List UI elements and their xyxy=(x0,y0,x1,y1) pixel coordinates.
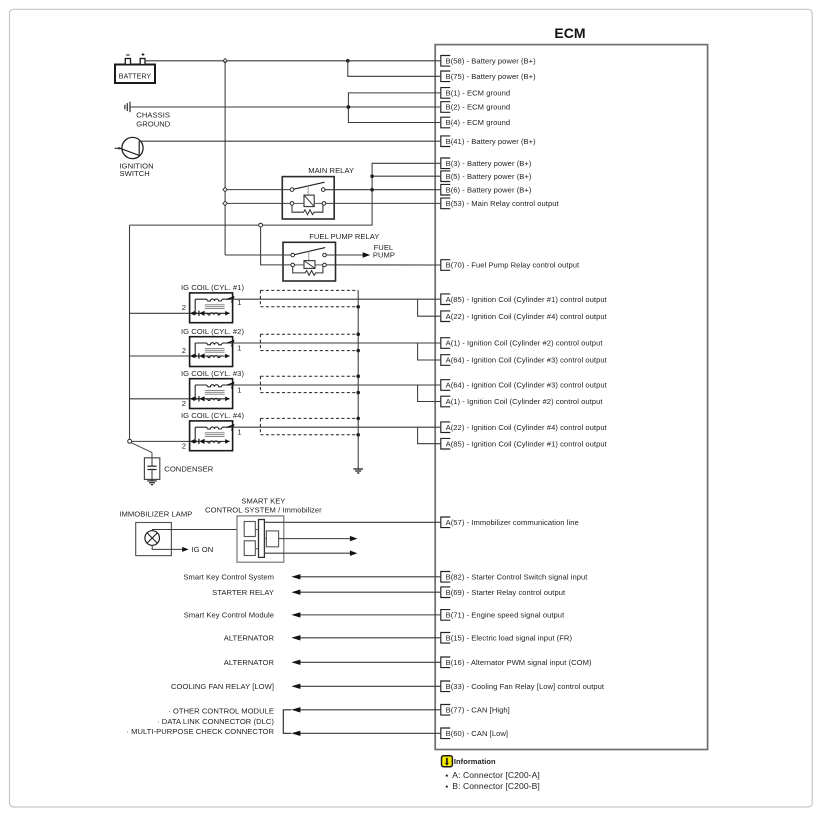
svg-text:ECM: ECM xyxy=(554,25,585,41)
label FUEL PUMP xyxy=(373,243,395,259)
svg-text:A(1) - Ignition Coil (Cylinder: A(1) - Ignition Coil (Cylinder #2) contr… xyxy=(446,397,604,406)
wire coil #1 control branch xyxy=(418,299,441,316)
label COOLING FAN RELAY [LOW] xyxy=(171,682,274,691)
svg-text:B(6) - Battery power (B+): B(6) - Battery power (B+) xyxy=(446,185,532,194)
svg-text:A(57) - Immobilizer communicat: A(57) - Immobilizer communication line xyxy=(446,518,579,527)
pin A(57) xyxy=(441,517,579,528)
wire main relay coil to pin B(53) xyxy=(326,202,441,204)
svg-text:· OTHER CONTROL MODULE: · OTHER CONTROL MODULE xyxy=(168,707,274,716)
label Smart Key Control System xyxy=(183,572,274,581)
ignition switch SW1 xyxy=(115,137,154,177)
svg-text:STARTER RELAY: STARTER RELAY xyxy=(212,588,274,597)
pin B(58) xyxy=(441,56,536,67)
pin A(22) xyxy=(441,311,608,322)
fuel pump relay K2 xyxy=(283,232,379,281)
shield ground xyxy=(353,469,363,473)
svg-text:B(33) - Cooling Fan Relay [Low: B(33) - Cooling Fan Relay [Low] control … xyxy=(446,682,605,691)
wire battery bus to fuel pump relay switch xyxy=(225,254,291,256)
smart key control unit U2 xyxy=(205,496,322,562)
svg-text:MAIN RELAY: MAIN RELAY xyxy=(308,166,354,175)
wire coil #1 pin 2 feed xyxy=(130,312,190,314)
junction condenser node xyxy=(128,439,132,443)
pin B(5) xyxy=(441,171,532,182)
svg-text:A(85) - Ignition Coil (Cylinde: A(85) - Ignition Coil (Cylinder #1) cont… xyxy=(446,439,608,448)
shield drain bus xyxy=(356,290,360,468)
svg-text:CONDENSER: CONDENSER xyxy=(164,465,213,474)
pin B(71) xyxy=(441,610,565,621)
svg-text:CONTROL SYSTEM / Immobilizer: CONTROL SYSTEM / Immobilizer xyxy=(205,505,322,514)
svg-text:IMMOBILIZER LAMP: IMMOBILIZER LAMP xyxy=(119,510,192,519)
shield for coil #3 wire xyxy=(260,376,358,392)
svg-text:ALTERNATOR: ALTERNATOR xyxy=(224,633,275,642)
svg-text:PUMP: PUMP xyxy=(373,251,395,260)
label STARTER RELAY xyxy=(212,588,274,597)
wire smart key to pin A(57) xyxy=(264,521,440,523)
svg-text:B(58) - Battery power (B+): B(58) - Battery power (B+) xyxy=(446,56,537,65)
svg-text:A(1) - Ignition Coil (Cylinder: A(1) - Ignition Coil (Cylinder #2) contr… xyxy=(446,339,604,348)
wire battery B+ to pin B(58) xyxy=(145,60,440,62)
svg-text:B: Connector [C200-B]: B: Connector [C200-B] xyxy=(452,781,540,791)
pin B(3) xyxy=(441,158,532,169)
svg-text:COOLING FAN RELAY [LOW]: COOLING FAN RELAY [LOW] xyxy=(171,682,274,691)
pin B(75) xyxy=(441,71,536,82)
ignition coil T2 (IG COIL CYL #2) xyxy=(181,327,244,367)
svg-text:Smart Key Control Module: Smart Key Control Module xyxy=(184,611,274,620)
pin A(85) xyxy=(441,294,608,305)
junction B(75) tap xyxy=(346,59,350,63)
svg-text:ALTERNATOR: ALTERNATOR xyxy=(224,658,275,667)
pin B(41) xyxy=(441,136,536,147)
wire to pin B(75) xyxy=(348,61,441,77)
wire chassis ground to pin B(2) xyxy=(130,106,440,108)
wire bus to coil #4 pin 2 xyxy=(132,440,190,442)
svg-text:B(77) - CAN [High]: B(77) - CAN [High] xyxy=(446,705,510,714)
wire pin B(60) CAN Low xyxy=(291,731,440,736)
svg-text:B(1) - ECM ground: B(1) - ECM ground xyxy=(446,89,511,98)
pin A(1) xyxy=(441,338,604,349)
wire pin row to STARTER RELAY xyxy=(291,590,440,595)
wire coil #4 control branch xyxy=(418,427,441,444)
pin B(2) xyxy=(441,102,510,113)
battery BAT1 xyxy=(115,53,155,83)
wire coil #4 control to ECM xyxy=(233,426,441,428)
ignition coil T1 (IG COIL CYL #1) xyxy=(181,283,244,323)
svg-text:GROUND: GROUND xyxy=(136,119,171,128)
svg-text:B(2) - ECM ground: B(2) - ECM ground xyxy=(446,103,511,112)
label Smart Key Control Module xyxy=(184,611,274,620)
wire battery bus to main relay switch xyxy=(223,187,290,191)
wire coil #3 control branch xyxy=(418,385,441,402)
wire pin row to Smart Key Control System xyxy=(291,574,440,579)
wire fuel pump relay coil to pin B(70) xyxy=(326,264,440,266)
ignition coil T4 (IG COIL CYL #4) xyxy=(181,411,244,451)
svg-text:1: 1 xyxy=(237,385,241,394)
main relay K1 xyxy=(282,166,354,219)
wire pin row to ALTERNATOR xyxy=(291,660,440,665)
svg-text:CHASSIS: CHASSIS xyxy=(136,111,170,120)
labels CAN modules xyxy=(126,707,274,736)
svg-text:Smart Key Control System: Smart Key Control System xyxy=(183,572,274,581)
pin B(6) xyxy=(441,184,532,195)
pin B(33) xyxy=(441,681,605,692)
svg-text:· MULTI-PURPOSE CHECK CONNECTO: · MULTI-PURPOSE CHECK CONNECTOR xyxy=(126,727,274,736)
label ALTERNATOR xyxy=(224,658,275,667)
wire fuel pump relay to FUEL PUMP xyxy=(326,252,370,257)
svg-text:A(22) - Ignition Coil (Cylinde: A(22) - Ignition Coil (Cylinder #4) cont… xyxy=(446,423,608,432)
wire coil #1 control to ECM xyxy=(233,298,441,300)
immobilizer lamp L1 xyxy=(119,510,192,556)
svg-text:B(53) - Main Relay control out: B(53) - Main Relay control output xyxy=(446,199,560,208)
svg-text:B(60) - CAN [Low]: B(60) - CAN [Low] xyxy=(446,729,508,738)
svg-text:B(5) - Battery power (B+): B(5) - Battery power (B+) xyxy=(446,172,532,181)
ignition coil T3 (IG COIL CYL #3) xyxy=(181,369,244,409)
svg-text:A(85) - Ignition Coil (Cylinde: A(85) - Ignition Coil (Cylinder #1) cont… xyxy=(446,295,608,304)
wire ignition switch to pin B(41) xyxy=(140,140,440,142)
svg-text:IG COIL (CYL. #4): IG COIL (CYL. #4) xyxy=(181,411,244,420)
wire coil #2 control branch xyxy=(418,343,441,360)
wire coil #2 pin 2 feed xyxy=(130,355,190,357)
wire pin row to ALTERNATOR xyxy=(291,635,440,640)
pin B(82) xyxy=(441,572,588,583)
svg-text:1: 1 xyxy=(237,428,241,437)
svg-text:B(82) - Starter Control Switch: B(82) - Starter Control Switch signal in… xyxy=(446,572,589,581)
pin A(1) xyxy=(441,396,604,407)
svg-text:B(69) - Starter Relay control: B(69) - Starter Relay control output xyxy=(446,588,566,597)
pin B(70) xyxy=(441,260,580,271)
svg-text:B(3) - Battery power (B+): B(3) - Battery power (B+) xyxy=(446,159,532,168)
svg-text:B(4) - ECM ground: B(4) - ECM ground xyxy=(446,118,511,127)
svg-text:BATTERY: BATTERY xyxy=(119,72,152,80)
wire pin row to Smart Key Control Module xyxy=(291,612,440,617)
svg-text:IG ON: IG ON xyxy=(192,545,214,554)
condenser C1 xyxy=(131,443,213,485)
svg-text:B(71) - Engine speed signal ou: B(71) - Engine speed signal output xyxy=(446,611,565,620)
wire lamp to smart key unit xyxy=(152,530,237,531)
svg-text:2: 2 xyxy=(182,442,186,451)
svg-text:IG COIL (CYL. #3): IG COIL (CYL. #3) xyxy=(181,369,244,378)
label IG ON xyxy=(192,545,214,554)
wire battery bus to main relay coil xyxy=(223,201,290,205)
svg-text:FUEL PUMP RELAY: FUEL PUMP RELAY xyxy=(309,232,379,241)
pin B(69) xyxy=(441,587,566,598)
wire pin row to COOLING FAN RELAY [LOW] xyxy=(291,684,440,689)
svg-text:B(70) - Fuel Pump Relay contro: B(70) - Fuel Pump Relay control output xyxy=(446,261,580,270)
svg-text:SWITCH: SWITCH xyxy=(120,169,150,178)
CAN bracket xyxy=(283,710,291,734)
information note xyxy=(442,756,540,791)
wire smart key output 2 xyxy=(264,551,357,556)
svg-text:· DATA LINK CONNECTOR (DLC): · DATA LINK CONNECTOR (DLC) xyxy=(157,717,274,726)
pin A(22) xyxy=(441,422,608,433)
svg-text:IG COIL (CYL. #2): IG COIL (CYL. #2) xyxy=(181,327,244,336)
svg-text:B(75) - Battery power (B+): B(75) - Battery power (B+) xyxy=(446,72,537,81)
wire coil #2 control to ECM xyxy=(233,342,441,344)
ECM box U1 xyxy=(435,25,707,749)
svg-text:IG COIL (CYL. #1): IG COIL (CYL. #1) xyxy=(181,283,244,292)
shield for coil #4 wire xyxy=(260,418,358,434)
pin A(64) xyxy=(441,355,608,366)
wire battery bus vertical xyxy=(224,61,226,255)
svg-text:A: Connector [C200-A]: A: Connector [C200-A] xyxy=(452,770,540,780)
bus B(3)/B(5)/B(6) xyxy=(130,163,441,225)
svg-text:B(15) - Electric load signal i: B(15) - Electric load signal input (FR) xyxy=(446,633,573,642)
wire lamp to IG ON xyxy=(152,545,189,552)
svg-text:A(64) - Ignition Coil (Cylinde: A(64) - Ignition Coil (Cylinder #3) cont… xyxy=(446,356,608,365)
svg-text:Information: Information xyxy=(454,757,496,766)
shield for coil #1 wire xyxy=(260,290,358,306)
junction battery bus tap xyxy=(223,59,227,63)
pin B(77) xyxy=(441,705,510,716)
wire coil #3 control to ECM xyxy=(233,384,441,386)
ECM ground bus xyxy=(347,93,441,123)
pin A(64) xyxy=(441,380,608,391)
svg-text:A(64) - Ignition Coil (Cylinde: A(64) - Ignition Coil (Cylinder #3) cont… xyxy=(446,381,608,390)
label ALTERNATOR xyxy=(224,633,275,642)
wire pin B(77) CAN High xyxy=(291,707,440,712)
pin B(1) xyxy=(441,88,510,99)
pin A(85) xyxy=(441,438,608,449)
pin B(53) xyxy=(441,198,560,209)
wire feed to fuel pump relay coil xyxy=(259,223,291,265)
pin B(60) xyxy=(441,728,508,739)
svg-text:1: 1 xyxy=(237,343,241,352)
svg-text:2: 2 xyxy=(182,399,186,408)
svg-text:A(22) - Ignition Coil (Cylinde: A(22) - Ignition Coil (Cylinder #4) cont… xyxy=(446,312,608,321)
wire ignition coil feed bus xyxy=(129,225,131,439)
svg-text:B(16) - Alternator PWM signal: B(16) - Alternator PWM signal input (COM… xyxy=(446,658,592,667)
pin B(15) xyxy=(441,633,573,644)
shield for coil #2 wire xyxy=(260,334,358,350)
svg-text:B(41) - Battery power (B+): B(41) - Battery power (B+) xyxy=(446,137,537,146)
pin B(4) xyxy=(441,117,510,128)
wire smart key output 1 xyxy=(279,536,358,541)
wire main relay switch output to pin B(6) xyxy=(325,189,440,191)
chassis ground xyxy=(125,102,171,129)
wire coil #3 pin 2 feed xyxy=(130,398,190,400)
svg-text:SMART KEY: SMART KEY xyxy=(241,496,285,505)
svg-text:2: 2 xyxy=(182,346,186,355)
pin B(16) xyxy=(441,657,592,668)
svg-text:2: 2 xyxy=(182,303,186,312)
